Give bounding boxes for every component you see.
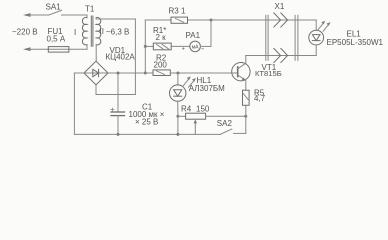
wire bridge minus to bottom rail — [74, 73, 84, 134]
svg-text:× 25 В: × 25 В — [135, 118, 158, 127]
meter PA1 — [182, 41, 203, 52]
LED HL1 — [170, 85, 186, 101]
svg-text:АЛ307БМ: АЛ307БМ — [189, 84, 225, 93]
node rail bridge — [144, 72, 147, 75]
wire R2 to base — [170, 72, 237, 74]
wire AC return drop — [96, 19, 135, 95]
capacitor C1 — [111, 73, 125, 134]
wire lamp top drop — [315, 20, 317, 30]
fuse FU1 — [48, 47, 87, 53]
transformer T1 core — [91, 16, 93, 46]
resistor R5 — [243, 90, 250, 105]
svg-text:R3 1: R3 1 — [169, 7, 186, 16]
node top rail PA1 — [210, 19, 213, 22]
HL1 arrows — [183, 76, 196, 87]
wire HL1 anode — [177, 73, 179, 85]
resistor R1 — [153, 43, 171, 50]
node rail R1 — [144, 45, 147, 48]
wire R1 branch — [145, 45, 153, 47]
svg-text:КТ815Б: КТ815Б — [255, 69, 282, 78]
node emitter network — [244, 115, 247, 118]
bottom rail wire — [74, 133, 220, 135]
svg-text:~6,3 В: ~6,3 В — [106, 27, 129, 36]
wire collector up — [245, 56, 247, 64]
wire collector to connector — [246, 55, 316, 57]
transformer T1 secondary winding — [96, 17, 101, 44]
top rail wire — [145, 19, 316, 21]
plus rail vertical wire — [144, 20, 146, 73]
wire R4 left lead — [178, 115, 186, 117]
wire primary leads — [86, 15, 88, 49]
wire R5 to node — [245, 105, 247, 116]
transistor VT1 — [232, 62, 250, 80]
R4 wiper arrow — [194, 119, 198, 134]
connector X1 left half — [266, 15, 268, 60]
X1 pin chevrons bottom — [274, 48, 288, 62]
svg-text:2 к: 2 к — [156, 33, 167, 42]
wire R2 branch — [145, 72, 153, 74]
LED EL1 — [309, 30, 324, 45]
svg-text:~220 В: ~220 В — [12, 27, 38, 36]
transformer T1 primary winding — [82, 17, 87, 44]
svg-text:X1: X1 — [275, 2, 285, 11]
wire R1 to PA1 — [171, 45, 190, 47]
svg-text:ЕР505L-350W1: ЕР505L-350W1 — [327, 38, 384, 47]
wire secondary top to AC node — [96, 18, 135, 19]
node HL1 branch — [176, 72, 179, 75]
wire emitter down — [245, 81, 247, 91]
svg-text:0,5 А: 0,5 А — [47, 35, 66, 44]
input terminal arrow bottom — [23, 47, 48, 51]
wire secondary bottom to bridge — [95, 45, 97, 62]
svg-text:200: 200 — [154, 61, 168, 70]
bridge rectifier VD1 — [84, 61, 108, 85]
resistor R2 — [153, 70, 170, 76]
svg-text:I: I — [74, 28, 76, 37]
svg-text:4,7: 4,7 — [254, 94, 266, 103]
resistor R4 — [186, 113, 206, 119]
switch SA2 — [220, 116, 246, 134]
connector X1 right half — [295, 15, 298, 60]
svg-text:150: 150 — [196, 104, 210, 113]
wire cathode to bottom rail — [177, 116, 179, 134]
wire HL1 cathode — [177, 101, 179, 116]
input terminal arrow top — [23, 13, 49, 17]
svg-text:II: II — [100, 27, 104, 36]
svg-text:T1: T1 — [85, 5, 95, 14]
resistor R3 — [171, 17, 188, 23]
node C1 bottom rail — [117, 133, 120, 136]
EL1 arrows — [318, 21, 331, 32]
node R4 left — [176, 115, 179, 118]
wire bridge plus output — [108, 72, 145, 74]
X1 pin chevrons top — [274, 13, 288, 27]
svg-text:SA1: SA1 — [46, 2, 62, 11]
svg-text:R4: R4 — [181, 104, 192, 113]
switch SA1 — [49, 10, 87, 15]
svg-text:мА: мА — [192, 44, 199, 50]
svg-text:SA2: SA2 — [217, 119, 233, 128]
node bottom rail HL1 — [176, 133, 179, 136]
node bridge plus / C1 — [117, 72, 120, 75]
wire PA1 to top rail — [200, 20, 211, 46]
wire R4 right lead — [206, 115, 246, 117]
wire lamp bottom drop — [315, 45, 317, 56]
svg-text:КЦ402А: КЦ402А — [106, 53, 136, 62]
svg-text:PA1: PA1 — [186, 31, 201, 40]
